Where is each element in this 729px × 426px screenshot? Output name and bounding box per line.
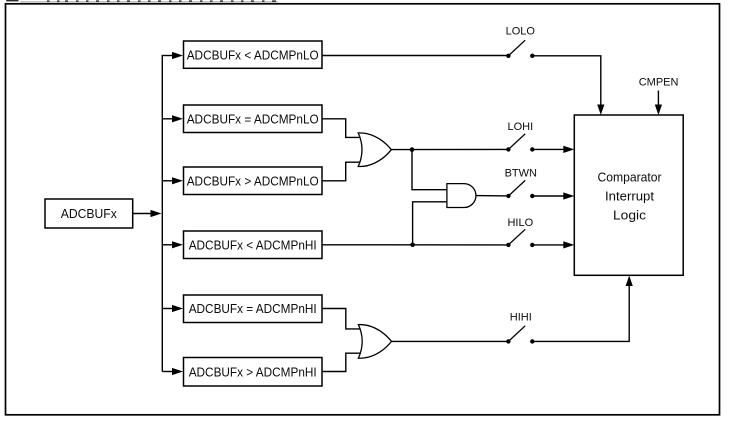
svg-text:ADCBUFx < ADCMPnLO: ADCBUFx < ADCMPnLO — [187, 47, 319, 62]
wire junction down to AND top input — [412, 150, 448, 190]
switch BTWN — [506, 180, 534, 198]
caption text remnant at top edge — [6, 0, 278, 2]
box ADCBUFx > ADCMPnHI — [184, 358, 323, 387]
svg-text:LOHI: LOHI — [507, 121, 533, 133]
wire bus branch to box5 — [162, 305, 183, 312]
wire LOHI switch to comparator — [532, 148, 568, 150]
box ADCBUFx = ADCMPnLO — [184, 105, 323, 133]
wire box5 to OR2 top input — [322, 309, 361, 329]
wire AND output to BTWN switch — [476, 195, 508, 197]
wire HILO switch to comparator — [532, 244, 568, 246]
wire box4 to HILO switch — [322, 244, 508, 246]
junction node HILO tap — [410, 243, 415, 248]
svg-text:Logic: Logic — [613, 208, 647, 223]
AND gate G2 — [447, 184, 476, 208]
wire box1 to LOLO switch — [322, 55, 508, 57]
OR gate G1 — [358, 133, 391, 167]
wire HIHI switch to comparator bottom — [532, 282, 629, 341]
wire BTWN switch to comparator — [532, 195, 568, 197]
box Comparator Interrupt Logic U1 — [574, 115, 683, 275]
svg-text:LOLO: LOLO — [506, 26, 536, 38]
wire OR2 output to HIHI switch — [392, 340, 509, 342]
wire HILO tap up to AND bottom input — [413, 202, 448, 245]
svg-text:ADCBUFx = ADCMPnLO: ADCBUFx = ADCMPnLO — [187, 112, 319, 127]
svg-text:ADCBUFx > ADCMPnHI: ADCBUFx > ADCMPnHI — [189, 364, 317, 379]
svg-text:HIHI: HIHI — [510, 312, 532, 324]
wire CMPEN to comparator top — [657, 91, 659, 109]
wire box3 to OR1 bottom input — [322, 162, 361, 181]
box ADCBUFx < ADCMPnLO — [184, 41, 323, 68]
wire bus branch to box6 — [162, 368, 183, 375]
wire box6 to OR2 bottom input — [322, 353, 361, 371]
svg-text:Comparator: Comparator — [598, 169, 663, 184]
junction node OR1 output — [410, 147, 415, 152]
wire box2 to OR1 top input — [322, 119, 361, 138]
svg-text:BTWN: BTWN — [505, 168, 537, 180]
box ADCBUFx = ADCMPnHI — [184, 295, 323, 323]
wire bus branch to box4 — [162, 241, 183, 248]
wire bus branch to box3 — [162, 177, 183, 184]
bus vertical line — [161, 56, 163, 372]
svg-text:Interrupt: Interrupt — [605, 189, 654, 204]
switch HILO — [506, 229, 534, 247]
switch LOHI — [506, 134, 534, 152]
wire bus branch to box2 — [162, 115, 183, 122]
svg-text:HILO: HILO — [507, 217, 533, 229]
box ADCBUFx — [45, 199, 133, 228]
switch LOLO — [506, 40, 534, 58]
OR gate G3 — [358, 325, 391, 359]
svg-text:ADCBUFx > ADCMPnLO: ADCBUFx > ADCMPnLO — [187, 174, 319, 189]
svg-text:CMPEN: CMPEN — [639, 77, 679, 89]
wire bus branch to box1 — [162, 52, 183, 59]
switch HIHI — [506, 326, 534, 344]
box ADCBUFx > ADCMPnLO — [184, 167, 323, 195]
wire OR1 output to junction and LOHI switch — [391, 148, 508, 150]
svg-text:ADCBUFx = ADCMPnHI: ADCBUFx = ADCMPnHI — [189, 301, 317, 316]
wire ADCBUFx to bus — [133, 210, 162, 217]
wire LOLO switch to comparator top — [532, 56, 601, 108]
svg-text:ADCBUFx: ADCBUFx — [61, 206, 117, 221]
svg-text:ADCBUFx < ADCMPnHI: ADCBUFx < ADCMPnHI — [189, 238, 317, 253]
box ADCBUFx < ADCMPnHI — [184, 231, 323, 259]
